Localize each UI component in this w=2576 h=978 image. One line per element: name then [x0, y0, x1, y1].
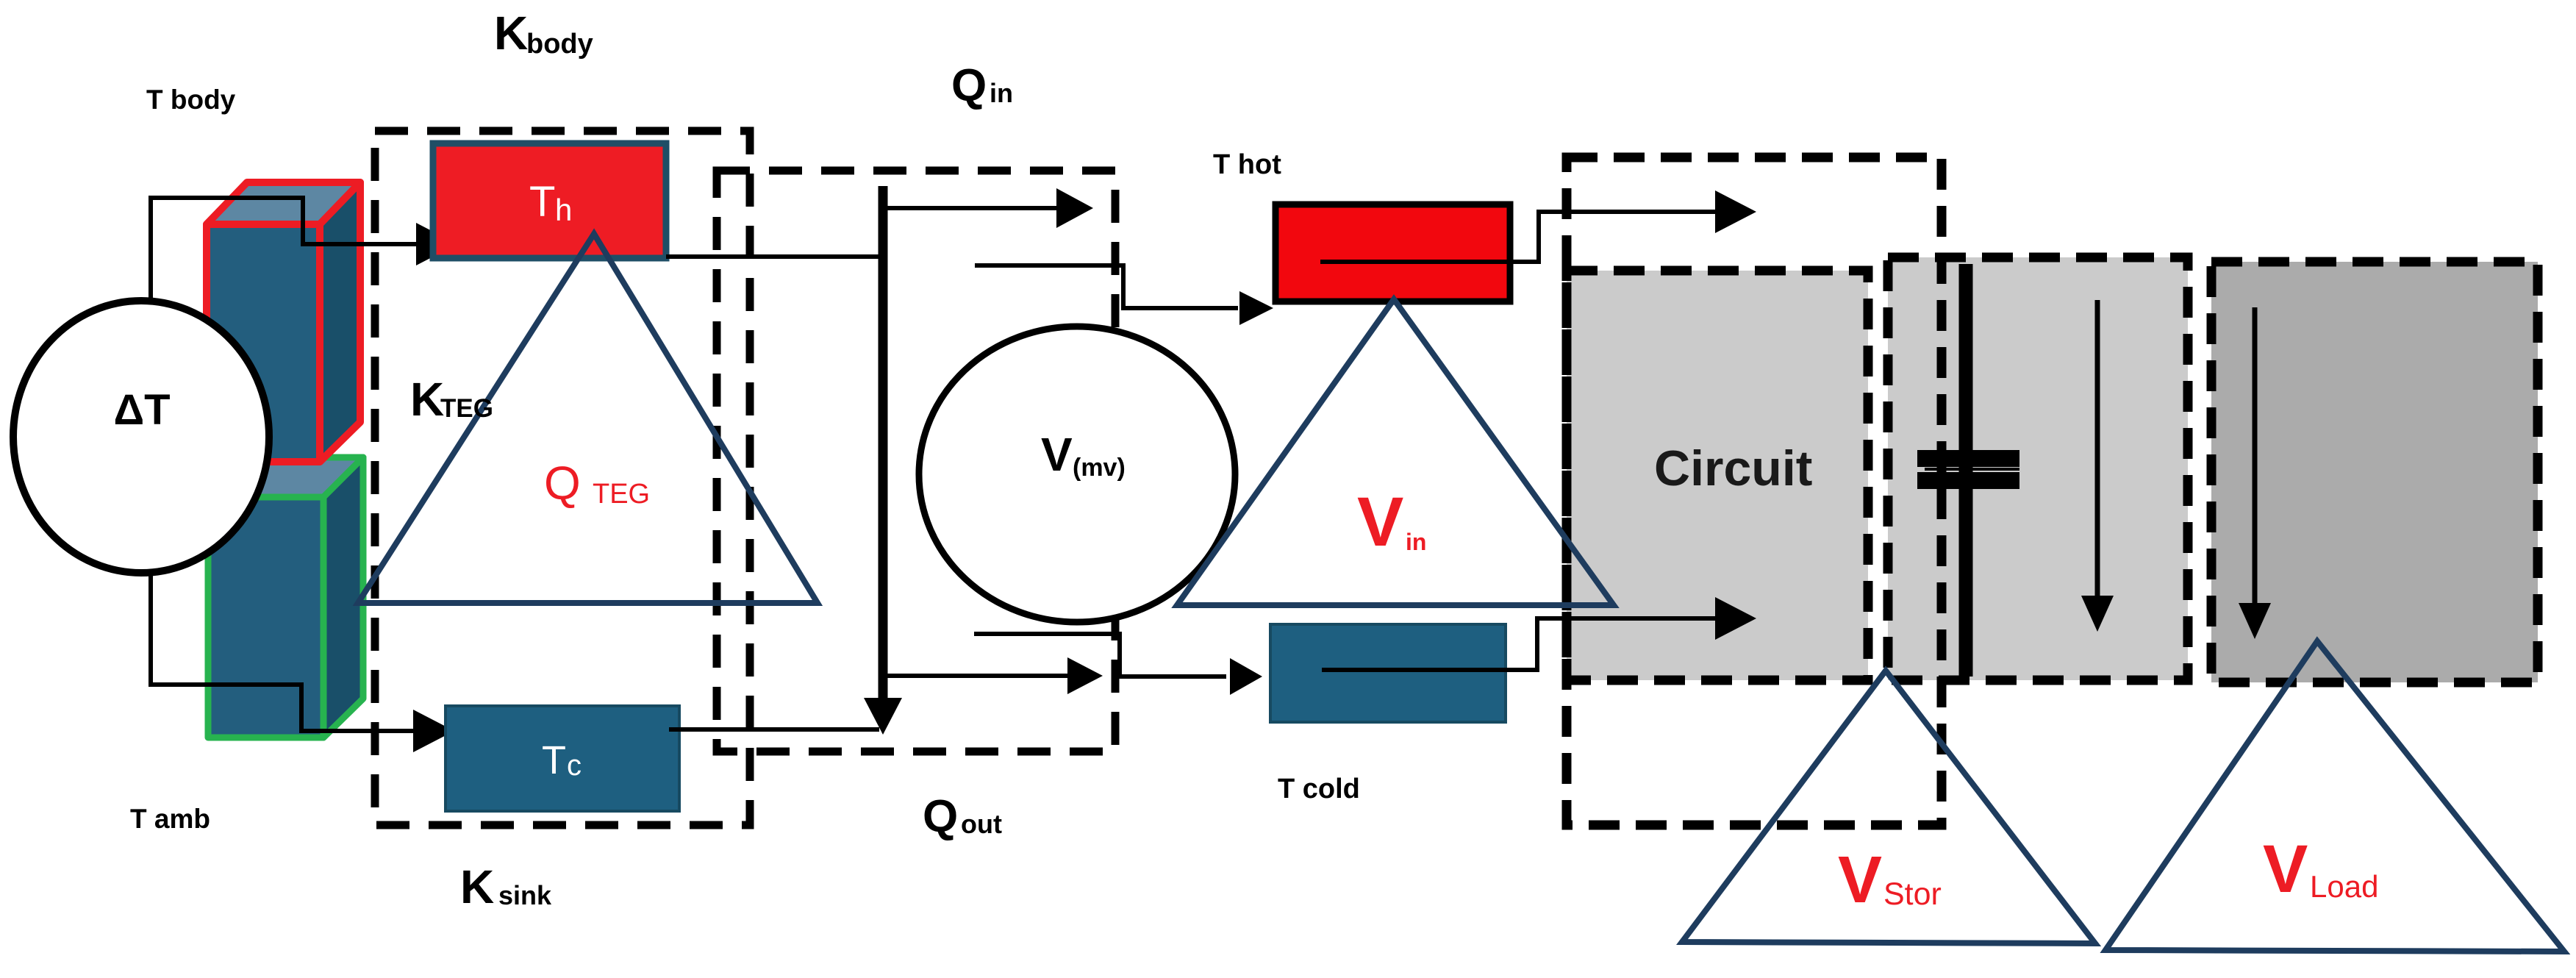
arrow Q in right — [883, 206, 1059, 210]
load dashed box — [2211, 262, 2538, 682]
arrow Q out right — [883, 674, 1067, 678]
node Tc box — [446, 706, 679, 811]
seebeck source circle V(mv) — [919, 326, 1235, 622]
svg-text:T body: T body — [146, 85, 236, 115]
wire Tc to Q line — [669, 727, 879, 732]
svg-text:T: T — [529, 178, 555, 226]
svg-text:Circuit: Circuit — [1654, 440, 1812, 496]
arrowhead Q out down — [864, 698, 902, 735]
svg-text:body: body — [526, 29, 593, 60]
Delta-T source circle — [13, 301, 269, 573]
svg-text:V: V — [1357, 483, 1403, 561]
svg-text:T amb: T amb — [130, 804, 210, 834]
wire Th to Q line — [666, 254, 882, 259]
svg-text:(mv): (mv) — [1073, 454, 1126, 482]
svg-text:in: in — [990, 78, 1013, 108]
circuit gray box — [1567, 271, 1868, 680]
triangle V_load — [2105, 641, 2564, 952]
svg-text:h: h — [555, 193, 572, 227]
wire T hot to circuit — [1320, 212, 1721, 262]
wire Vmv to T hot — [975, 265, 1238, 308]
capacitor C-stor — [1917, 264, 2019, 677]
wire T amb to Tc — [151, 573, 415, 731]
svg-text:Q: Q — [923, 791, 958, 842]
triangle Q_TEG — [358, 234, 817, 603]
svg-text:T: T — [542, 738, 566, 782]
dashed box K (TEG thermal) — [375, 131, 750, 825]
svg-text:Stor: Stor — [1883, 877, 1942, 912]
svg-text:TEG: TEG — [593, 479, 650, 510]
arrowhead into Tc — [413, 710, 454, 752]
current arrow in storage box — [2095, 300, 2100, 597]
TEG hot-side 3D block (red) — [207, 182, 360, 462]
svg-text:Load: Load — [2310, 869, 2378, 904]
wire Vmv to T cold — [974, 634, 1226, 677]
wire T cold to circuit — [1322, 618, 1721, 670]
svg-text:K: K — [460, 860, 494, 913]
svg-text:T cold: T cold — [1278, 774, 1360, 804]
svg-text:V: V — [1041, 428, 1073, 481]
thick Q flow line — [879, 186, 888, 699]
triangle V_stor — [1682, 671, 2095, 943]
svg-text:sink: sink — [498, 880, 552, 910]
svg-text:Q: Q — [951, 60, 987, 111]
arrowhead into Th — [416, 223, 457, 265]
svg-text:K: K — [494, 7, 528, 60]
svg-text:c: c — [567, 749, 582, 782]
svg-text:V: V — [2263, 832, 2308, 907]
svg-text:TEG: TEG — [440, 394, 493, 423]
dashed box Q (heat flow) — [717, 171, 1115, 752]
node Th box — [433, 143, 666, 258]
svg-text:T hot: T hot — [1213, 149, 1281, 180]
circuit outer dashed box — [1567, 157, 1942, 825]
triangle V_in — [1177, 299, 1614, 605]
current arrow in load box — [2253, 307, 2258, 604]
wire T body to Th — [151, 198, 419, 302]
storage cap dashed box — [1888, 257, 2188, 680]
svg-text:out: out — [961, 809, 1002, 839]
svg-text:Q: Q — [544, 457, 581, 510]
svg-text:ΔT: ΔT — [113, 386, 170, 434]
svg-text:V: V — [1838, 843, 1882, 917]
TEG cold-side 3D block (green) — [208, 457, 363, 738]
node T cold box — [1270, 624, 1506, 722]
svg-text:in: in — [1406, 529, 1426, 555]
node T hot box — [1276, 204, 1510, 301]
svg-text:K: K — [410, 373, 444, 426]
